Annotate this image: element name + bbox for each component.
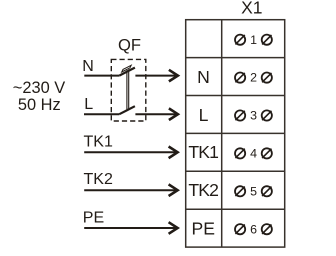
svg-text:~230 V: ~230 V: [13, 79, 65, 97]
breaker QF mechanical linkage: [127, 69, 129, 110]
supply label ~230 V 50 Hz: [13, 79, 65, 114]
terminal 5: [235, 184, 272, 198]
svg-text:50 Hz: 50 Hz: [18, 96, 61, 114]
row separator 5: [186, 208, 285, 210]
wire N out with arrow: [135, 70, 178, 82]
svg-text:N: N: [197, 67, 210, 87]
wire TK1 with arrow: [84, 147, 177, 159]
svg-text:3: 3: [250, 109, 257, 123]
row separator 1: [186, 57, 285, 59]
svg-text:TK1: TK1: [84, 133, 113, 150]
svg-text:4: 4: [250, 147, 257, 161]
wire L out with arrow: [135, 108, 178, 120]
breaker QF pole2 blade: [119, 106, 135, 114]
svg-text:5: 5: [250, 184, 257, 198]
svg-text:L: L: [84, 96, 93, 113]
svg-text:QF: QF: [118, 36, 141, 55]
svg-text:L: L: [199, 105, 209, 125]
terminal block X1 outline: [186, 20, 285, 247]
svg-text:2: 2: [250, 71, 257, 85]
wire L in: [84, 113, 119, 115]
breaker QF pole1 blade: [119, 68, 135, 76]
svg-text:X1: X1: [241, 0, 262, 18]
svg-text:PE: PE: [192, 218, 215, 238]
svg-text:TK1: TK1: [188, 142, 218, 162]
svg-text:TK2: TK2: [84, 171, 113, 188]
svg-text:TK2: TK2: [188, 180, 218, 200]
row separator 2: [186, 95, 285, 97]
terminal 2: [235, 71, 272, 85]
row separator 3: [186, 132, 285, 134]
svg-text:1: 1: [250, 33, 257, 47]
svg-text:N: N: [82, 58, 94, 75]
row separator 4: [186, 170, 285, 172]
svg-text:PE: PE: [83, 209, 104, 226]
terminal 1: [235, 33, 272, 47]
terminal 4: [235, 147, 272, 161]
breaker QF dashed enclosure: [111, 59, 146, 121]
terminal block column divider: [221, 20, 223, 247]
svg-text:6: 6: [250, 222, 257, 236]
terminal 3: [235, 109, 272, 123]
wire PE with arrow: [84, 222, 177, 234]
terminal 6: [235, 222, 272, 236]
breaker QF latch mark: [122, 65, 132, 72]
wire TK2 with arrow: [84, 184, 177, 196]
wire N in: [84, 75, 119, 77]
